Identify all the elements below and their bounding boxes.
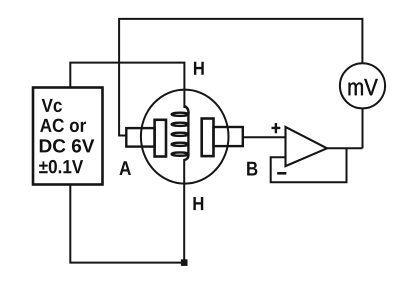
right feedthrough stem (node B) <box>214 127 243 146</box>
label H (bottom) <box>193 197 203 210</box>
tube envelope (glass bulb) <box>141 90 229 184</box>
node B label <box>247 162 257 176</box>
voltmeter mV <box>340 63 385 108</box>
junction dot at heater bottom corner <box>181 259 188 266</box>
heater coil (filament spring) <box>172 106 189 160</box>
power supply box Vc <box>33 88 103 185</box>
minus sign at - input <box>277 172 286 175</box>
node A label <box>119 161 131 175</box>
label ±0.1V <box>39 160 83 173</box>
wire: top bus from node A up, across the top, down to meter <box>119 19 362 136</box>
label H (top) <box>194 62 204 75</box>
op-amp U1 <box>286 127 328 166</box>
electrode plate B <box>202 119 214 157</box>
label AC or <box>40 119 86 132</box>
wire: node B to op-amp + input <box>243 136 286 138</box>
electrode plate A <box>155 120 166 157</box>
left feedthrough stem (node A) <box>126 128 154 147</box>
wire: feedback loop from - input around to output <box>271 148 347 182</box>
wire: heater top net from supply box to coil <box>70 63 184 108</box>
label mV <box>349 79 378 95</box>
label Vc <box>42 99 62 112</box>
plus sign at + input <box>272 123 281 133</box>
label DC 6V <box>40 139 95 152</box>
wire: heater bottom net from supply box to coil <box>70 159 184 263</box>
wire: op-amp output to meter branch <box>326 147 363 149</box>
wire: meter bottom lead <box>362 108 364 148</box>
wire: node A stub into feedthrough <box>118 135 127 137</box>
